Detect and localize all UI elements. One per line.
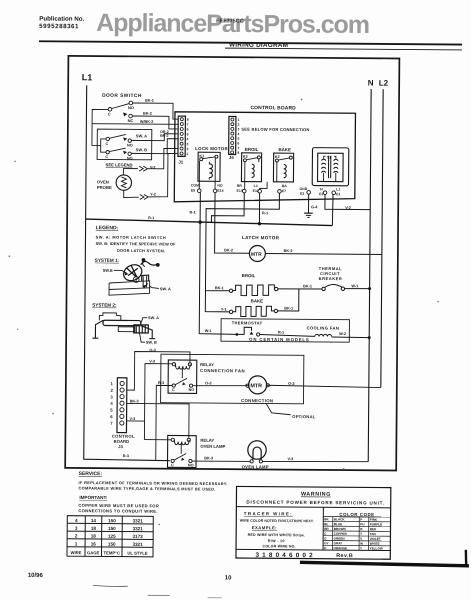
svg-text:BR: BR: [237, 184, 243, 188]
relay K1 leads: [198, 161, 200, 189]
svg-text:BLUE: BLUE: [334, 522, 342, 526]
svg-text:SW. A: MOTOR LATCH SWITCH: SW. A: MOTOR LATCH SWITCH: [96, 235, 167, 241]
svg-text:6: 6: [187, 128, 189, 132]
relay K4 coil: [175, 364, 190, 369]
switch SW.A arrow: [123, 137, 127, 141]
svg-text:J3: J3: [118, 444, 123, 449]
connector chevrons V-2: [139, 166, 147, 171]
switch SW.A C contact: [106, 137, 109, 140]
svg-text:OVEN LAMP: OVEN LAMP: [242, 464, 269, 469]
svg-text:WIRE COLOR NOTED FIRST,STRIPE: WIRE COLOR NOTED FIRST,STRIPE NEXT.: [240, 519, 314, 524]
svg-text:Publication No.: Publication No.: [39, 15, 84, 22]
wire gauge table: [67, 516, 153, 557]
svg-text:CONNECTION FAN: CONNECTION FAN: [200, 368, 245, 373]
svg-text:MTR: MTR: [250, 383, 262, 389]
terminal L1 E12: [258, 189, 262, 193]
svg-text:BK-1: BK-1: [303, 284, 312, 288]
svg-text:NO: NO: [217, 184, 223, 188]
wire BR-2 SW.B NO to J1 pin 4: [131, 138, 178, 153]
scan artifact streak bottom right: [300, 562, 469, 566]
wire R-3 fan relay C to L1 rail: [156, 385, 172, 460]
svg-text:Y: Y: [360, 546, 363, 550]
junction fan N: [368, 336, 371, 339]
svg-text:125: 125: [108, 534, 116, 539]
connector J3: [117, 378, 127, 433]
svg-text:L2: L2: [379, 79, 389, 88]
wire latch motor to L2: [265, 253, 381, 256]
svg-text:BROIL: BROIL: [242, 273, 256, 278]
svg-text:R: R: [360, 527, 363, 531]
optional leader and label: [266, 404, 291, 415]
svg-text:5995288361: 5995288361: [39, 23, 79, 30]
svg-text:K2: K2: [275, 155, 280, 159]
svg-text:SW. A: SW. A: [148, 315, 159, 320]
switch S1 NC arrow: [123, 112, 128, 116]
svg-text:BK-2: BK-2: [143, 112, 152, 116]
wire Y-2 oven probe bottom to J1 pin 1: [124, 190, 139, 197]
system 1 latch mechanism drawing: [103, 258, 172, 296]
svg-text:2: 2: [75, 533, 78, 538]
svg-text:3321: 3321: [133, 526, 144, 531]
svg-text:4: 4: [110, 401, 113, 406]
svg-text:14: 14: [91, 518, 97, 523]
svg-text:SW. B: SW. B: [136, 147, 147, 152]
svg-text:5: 5: [187, 132, 189, 136]
svg-text:16: 16: [91, 541, 97, 546]
svg-text:E12: E12: [253, 189, 259, 193]
switch SW.A blade: [109, 134, 126, 138]
terminal NO E14: [213, 189, 217, 193]
svg-text:SW. B: SW. B: [146, 340, 157, 345]
svg-text:GAGE: GAGE: [87, 550, 100, 555]
svg-text:BAKE: BAKE: [251, 298, 264, 303]
svg-text:V-3: V-3: [149, 360, 155, 364]
svg-text:NO: NO: [127, 157, 133, 161]
wire R-1 from E12 to bus: [258, 193, 260, 224]
svg-text:WHITE: WHITE: [370, 542, 380, 546]
svg-text:318046002: 318046002: [255, 552, 315, 559]
svg-text:LEGEND:: LEGEND:: [96, 225, 119, 231]
resistor RT1 oven probe: [116, 175, 132, 191]
svg-text:N: N: [368, 79, 374, 88]
svg-text:BR: BR: [324, 527, 329, 531]
connector J3 pin numbers: [110, 381, 113, 426]
wire BK-3 J3 pin4 to lamp relay coil: [126, 403, 189, 438]
svg-text:4: 4: [187, 137, 189, 141]
svg-text:DOOR SWITCH: DOOR SWITCH: [102, 93, 142, 99]
svg-text:R/W - 10: R/W - 10: [268, 539, 285, 543]
diagram border frame: [65, 56, 399, 471]
svg-text:W-2: W-2: [339, 332, 346, 336]
wire bake right joins broil right: [278, 289, 299, 311]
svg-text:COOLING FAN: COOLING FAN: [307, 325, 340, 330]
svg-text:LOCK MOTOR: LOCK MOTOR: [195, 146, 228, 151]
svg-text:E2: E2: [319, 192, 323, 196]
wire R-1 from E5 down to thermostat: [199, 193, 238, 335]
wire V-2 from E2 to N: [325, 195, 370, 210]
svg-text:SERVICE:: SERVICE:: [79, 471, 103, 477]
svg-text:6: 6: [110, 414, 113, 419]
svg-text:BK-1: BK-1: [215, 286, 224, 290]
svg-text:RELAY: RELAY: [200, 362, 214, 367]
svg-text:NO: NO: [188, 463, 194, 467]
switch S1 NO contact: [129, 101, 133, 105]
svg-text:1: 1: [238, 118, 240, 122]
wire BK-3 lamp relay NO to oven lamp: [192, 460, 250, 463]
svg-text:TAN: TAN: [370, 532, 377, 536]
svg-text:RED WIRE WITH WHITE Stripe.: RED WIRE WITH WHITE Stripe.: [248, 533, 306, 537]
svg-text:2: 2: [238, 123, 240, 127]
svg-text:NO: NO: [128, 105, 134, 110]
svg-text:3: 3: [110, 394, 113, 399]
svg-text:W-1: W-1: [205, 329, 212, 333]
connector J1: [178, 116, 186, 156]
svg-text:SW. B: IDENTIFY THE SPECIFIC: SW. B: IDENTIFY THE SPECIFIC VIEW OF: [96, 241, 177, 247]
wire cooling fan to N: [332, 336, 370, 339]
svg-text:BK-1: BK-1: [284, 306, 293, 310]
svg-text:5: 5: [110, 408, 113, 413]
connector J6: [229, 116, 236, 154]
svg-text:COLOR WIRE NO.: COLOR WIRE NO.: [263, 544, 296, 548]
relay K5 oven lamp: [167, 435, 196, 467]
svg-text:UL STYLE: UL STYLE: [127, 551, 147, 556]
svg-text:EXAMPLE:: EXAMPLE:: [252, 525, 277, 530]
svg-text:O-3: O-3: [205, 381, 211, 385]
header rule: [39, 41, 462, 44]
svg-text:NO: NO: [188, 388, 194, 392]
svg-text:COPPER: COPPER: [334, 532, 348, 536]
scan smudge: [93, 585, 128, 586]
wire V-2 oven probe top to J1 pin 2: [123, 169, 137, 176]
transformer T1 leads: [324, 156, 326, 159]
svg-text:R-1: R-1: [278, 331, 284, 335]
svg-text:3: 3: [238, 127, 240, 131]
svg-text:C: C: [324, 532, 327, 536]
wire OR-2 SW.A NO to J1 pin 5: [131, 133, 178, 140]
svg-text:O-3: O-3: [288, 382, 294, 386]
svg-text:V-3: V-3: [288, 457, 294, 461]
svg-text:GY: GY: [324, 541, 329, 545]
relay K2 coil: [284, 164, 287, 177]
wire breaker to N: [345, 287, 370, 289]
svg-text:7: 7: [237, 146, 239, 150]
svg-text:E10: E10: [237, 189, 243, 193]
svg-text:THERMOSTAT: THERMOSTAT: [232, 320, 263, 325]
svg-text:C: C: [171, 463, 174, 467]
svg-text:C: C: [172, 388, 175, 392]
svg-text:TRACER WIRE:: TRACER WIRE:: [244, 511, 293, 516]
transformer T1 primary winding: [321, 159, 326, 172]
svg-text:G-4: G-4: [311, 205, 318, 209]
wire BK-2 from E14 to latch motor: [215, 193, 250, 254]
svg-text:8: 8: [187, 118, 189, 122]
lamp oven lamp: [248, 441, 267, 460]
svg-text:BK-2: BK-2: [224, 248, 233, 252]
svg-text:BROWN: BROWN: [334, 527, 347, 531]
svg-text:YELLOW: YELLOW: [370, 546, 383, 550]
svg-text:RELAY: RELAY: [200, 438, 214, 443]
svg-text:P: P: [360, 518, 362, 522]
svg-text:VIOLET: VIOLET: [370, 537, 381, 541]
terminal L1 E1: [332, 191, 336, 195]
wire from E7 to broil and bake elements: [205, 193, 279, 292]
relay K5 contact: [174, 454, 186, 461]
terminal GND E3: [307, 191, 311, 195]
svg-text:BK-3: BK-3: [204, 456, 213, 460]
svg-text:J6: J6: [229, 155, 234, 160]
svg-text:TEMP°C: TEMP°C: [104, 550, 120, 555]
wire thermostat to cooling fan: [260, 334, 315, 336]
svg-text:COM: COM: [191, 183, 199, 187]
terminal COM E5: [197, 189, 201, 193]
relay K4 contact: [175, 378, 187, 385]
junction E5 bus: [198, 220, 201, 223]
svg-text:C: C: [105, 155, 108, 159]
transformer T1 secondary winding: [334, 159, 339, 172]
svg-text:CONTROL BOARD: CONTROL BOARD: [250, 105, 296, 111]
junction breaker N: [368, 287, 371, 290]
svg-text:GRAY: GRAY: [334, 541, 344, 545]
svg-text:CONNECTION: CONNECTION: [241, 398, 273, 403]
svg-text:BREAKER: BREAKER: [319, 276, 343, 281]
svg-text:BA: BA: [282, 184, 288, 188]
relay K1 coil: [209, 164, 212, 178]
svg-text:3: 3: [75, 526, 78, 531]
terminal BR E10: [242, 189, 246, 193]
terminal BA E7: [278, 190, 282, 194]
transformer T1 core: [327, 156, 329, 178]
wire from E10 to bus: [211, 193, 244, 223]
switch SW.B blade: [109, 148, 126, 152]
system 2 latch mechanism drawing: [92, 313, 159, 345]
switch S1 door switch C contact: [108, 107, 112, 111]
wire E12 jog to bake relay: [260, 182, 267, 190]
wire W/BK-2 to J1 pin 7: [92, 123, 178, 126]
svg-text:SW. A: SW. A: [136, 133, 147, 138]
svg-text:3173: 3173: [133, 534, 144, 539]
wire V-3 J3 pin6 to relay coils: [127, 363, 173, 421]
connector J1 pin numbers: [186, 118, 188, 156]
svg-text:V-2: V-2: [345, 206, 351, 210]
svg-text:ORANGE: ORANGE: [334, 546, 348, 550]
svg-text:K3: K3: [243, 155, 248, 159]
wire O-3 J3 pin2 to fan relay coil: [127, 351, 190, 390]
wire BK-1 from NO to J1 pin 8: [133, 103, 179, 119]
thermostat switch TH1: [236, 333, 238, 335]
svg-text:7: 7: [110, 421, 113, 426]
wire O-3 fan relay NO to motor: [193, 384, 249, 387]
wire L2 vertical rail: [381, 89, 383, 387]
svg-text:BR-2: BR-2: [160, 134, 168, 138]
svg-text:18: 18: [91, 526, 97, 531]
scan specks: [6, 96, 441, 600]
svg-text:SEE BELOW FOR CONNECTION: SEE BELOW FOR CONNECTION: [241, 127, 309, 133]
svg-text:BK-1: BK-1: [145, 99, 154, 103]
svg-text:O: O: [324, 546, 327, 550]
switch SW.B arrow: [123, 151, 127, 155]
switch S1 NC contact: [129, 114, 133, 118]
svg-text:SW. A: SW. A: [160, 286, 171, 291]
svg-text:1: 1: [186, 152, 188, 156]
svg-text:MTR: MTR: [251, 252, 262, 258]
svg-text:OVEN LAMP: OVEN LAMP: [200, 444, 225, 449]
wire N vertical rail: [368, 89, 371, 462]
svg-text:L1: L1: [254, 184, 258, 188]
svg-text:R-1: R-1: [189, 211, 195, 215]
svg-text:Y-2: Y-2: [150, 193, 156, 197]
svg-text:C: C: [106, 142, 109, 146]
switch SW.B NO contact: [128, 152, 131, 155]
svg-text:10/96: 10/96: [28, 573, 44, 579]
title underline: [225, 48, 462, 50]
svg-text:R-3: R-3: [158, 381, 164, 385]
wire L1 vertical rail: [84, 85, 173, 460]
svg-text:WIRE: WIRE: [71, 550, 82, 555]
svg-text:10: 10: [225, 575, 232, 581]
warning box frame: [236, 486, 391, 559]
svg-text:3321: 3321: [133, 518, 144, 523]
svg-text:SYSTEM 2:: SYSTEM 2:: [92, 302, 117, 307]
svg-text:OPTIONAL: OPTIONAL: [292, 414, 315, 419]
transformer T1: [312, 148, 349, 186]
svg-text:PURPLE: PURPLE: [370, 522, 383, 526]
wire common to SW A and SW B: [101, 139, 106, 152]
svg-text:L1: L1: [82, 72, 93, 82]
switch S1 blade: [111, 103, 129, 108]
svg-text:LATCH MOTOR: LATCH MOTOR: [242, 235, 280, 240]
svg-text:BL: BL: [324, 522, 328, 526]
motor M2 convection fan: [246, 384, 249, 387]
ground symbol: [304, 212, 313, 214]
svg-text:V-3: V-3: [130, 417, 136, 421]
svg-text:1: 1: [111, 381, 114, 386]
svg-text:PINK: PINK: [370, 518, 378, 522]
latch switch enclosure box: [97, 129, 152, 160]
wire L1 bus R-1: [86, 219, 333, 226]
svg-text:BAKE: BAKE: [278, 147, 291, 152]
thermostat enclosure on certain models: [221, 319, 349, 343]
svg-text:PROBE: PROBE: [97, 185, 112, 190]
svg-text:150: 150: [108, 542, 116, 547]
svg-text:V: V: [360, 537, 363, 541]
ground G-4 from E3: [307, 194, 309, 212]
switch SW.B C contact: [106, 150, 109, 153]
svg-text:150: 150: [108, 518, 116, 523]
relay K5 coil: [174, 440, 189, 445]
svg-text:SEE LEGEND: SEE LEGEND: [106, 162, 133, 167]
connector J6 pin numbers: [237, 118, 239, 155]
svg-text:W-1: W-1: [351, 284, 358, 288]
svg-text:O-3: O-3: [149, 348, 155, 352]
svg-text:BROIL: BROIL: [245, 147, 259, 152]
wire O-3 motor to L2: [267, 385, 381, 387]
svg-text:18: 18: [91, 534, 97, 539]
svg-text:3321: 3321: [132, 542, 143, 547]
connector chevrons Y-2: [140, 194, 148, 199]
svg-text:SYSTEM 1:: SYSTEM 1:: [95, 258, 120, 263]
svg-text:2: 2: [186, 147, 188, 151]
svg-text:FEF375CC: FEF375CC: [216, 18, 244, 24]
control board outline: [174, 112, 355, 203]
svg-text:H: H: [320, 187, 323, 191]
svg-text:BK: BK: [324, 517, 329, 521]
svg-text:R-3: R-3: [123, 454, 129, 458]
wire E1 to bus: [331, 195, 334, 226]
wire broil right to thermal breaker: [278, 288, 322, 291]
svg-text:GND: GND: [299, 187, 307, 191]
svg-text:E14: E14: [217, 189, 223, 193]
svg-text:1: 1: [75, 541, 78, 546]
svg-text:NC: NC: [128, 118, 134, 123]
svg-text:150: 150: [108, 526, 116, 531]
svg-text:BK-3: BK-3: [130, 399, 139, 403]
svg-text:ON CERTAIN MODELS: ON CERTAIN MODELS: [249, 337, 309, 342]
optional enclosure box: [161, 354, 304, 404]
svg-text:3: 3: [187, 142, 189, 146]
svg-text:COLOR CODE: COLOR CODE: [339, 512, 374, 517]
svg-text:SW.B: SW.B: [103, 268, 113, 273]
svg-text:CONNECTIONS TO CONDUIT WIRE.: CONNECTIONS TO CONDUIT WIRE.: [78, 508, 158, 514]
relay K4 connection fan: [168, 360, 197, 393]
svg-text:Y-1: Y-1: [221, 308, 227, 312]
switch SW.A NO contact: [128, 139, 131, 142]
svg-text:R-1: R-1: [262, 211, 268, 215]
svg-text:WARNING: WARNING: [301, 492, 331, 498]
terminal H E2: [323, 191, 327, 195]
svg-text:C: C: [108, 111, 111, 116]
svg-text:E3: E3: [300, 192, 304, 196]
wire door switch common down-left: [92, 109, 108, 145]
svg-text:E5: E5: [191, 188, 195, 192]
svg-text:E7: E7: [282, 189, 286, 193]
relay K3 coil: [252, 164, 255, 177]
svg-text:OVEN: OVEN: [97, 179, 109, 184]
junction E12 bus: [258, 222, 261, 225]
svg-text:V-2: V-2: [150, 166, 156, 170]
svg-text:2: 2: [110, 388, 113, 393]
svg-text:PU: PU: [360, 522, 365, 526]
wire V-3 oven lamp to N: [263, 461, 369, 462]
svg-text:DISCONNECT POWER BEFORE SERVIC: DISCONNECT POWER BEFORE SERVICING UNIT.: [246, 499, 384, 505]
svg-text:G: G: [324, 537, 327, 541]
svg-text:BLACK: BLACK: [334, 517, 346, 521]
wire BK-2 from NC to J1 pin 6: [132, 116, 178, 129]
svg-text:E1: E1: [336, 192, 340, 196]
svg-text:IMPORTANT:: IMPORTANT:: [79, 495, 107, 500]
svg-text:COMPARABLE WIRE TYPE,GAGE & TE: COMPARABLE WIRE TYPE,GAGE & TERMINALS MU…: [78, 485, 215, 491]
svg-text:RED: RED: [370, 527, 377, 531]
svg-text:4: 4: [75, 518, 78, 523]
svg-text:6: 6: [237, 142, 239, 146]
svg-text:Rev.B: Rev.B: [336, 553, 353, 559]
svg-text:J1: J1: [178, 160, 183, 165]
svg-text:5: 5: [237, 137, 239, 141]
svg-text:4: 4: [237, 132, 239, 136]
svg-text:GREEN: GREEN: [334, 537, 346, 541]
svg-text:W: W: [360, 542, 363, 546]
svg-text:BK-2: BK-2: [284, 249, 293, 253]
svg-text:7: 7: [187, 123, 189, 127]
svg-text:DOOR LATCH SYSTEM.: DOOR LATCH SYSTEM.: [117, 248, 165, 253]
svg-text:L1: L1: [336, 187, 340, 191]
svg-text:R-1: R-1: [148, 216, 154, 220]
svg-text:W/BK-2: W/BK-2: [140, 120, 154, 124]
svg-text:8: 8: [237, 151, 239, 155]
svg-text:NO: NO: [127, 144, 133, 148]
svg-text:T: T: [360, 532, 362, 536]
